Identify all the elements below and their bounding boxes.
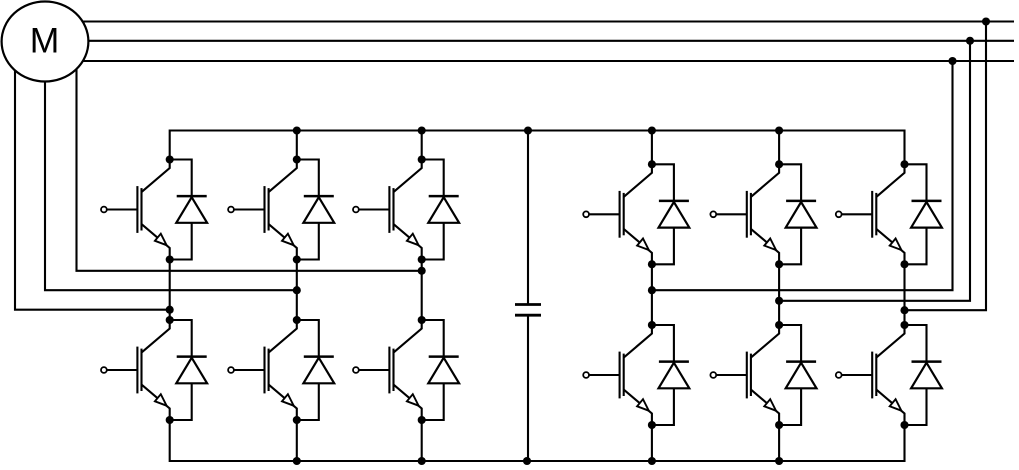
junction bottom rail capacitor node	[523, 457, 531, 465]
wire motor phase b to grid line 2	[70, 40, 1014, 42]
junction Q12 collector node	[900, 321, 908, 329]
wire bottom rail stub leg x=651.9	[651, 425, 653, 461]
junction bottom rail node 2	[418, 457, 426, 465]
transistor Q1	[101, 160, 170, 260]
junction Q8 collector node	[648, 321, 656, 329]
junction left leg 1 phase node	[166, 306, 174, 314]
junction Q4 collector node	[293, 316, 301, 324]
transistor Q12	[836, 325, 905, 425]
junction bottom rail node 4	[775, 457, 783, 465]
transistor Q11	[836, 164, 905, 264]
junction Q2 collector node	[166, 316, 174, 324]
diode D4	[297, 320, 334, 420]
wire capacitor bottom lead	[527, 315, 529, 461]
wire motor lead 1 to left leg 1 phase node	[15, 68, 170, 310]
wire motor lead 3 to left leg 3 phase node	[77, 66, 422, 271]
junction Q9 emitter node	[775, 260, 783, 268]
wire top rail stub leg x=779.1	[778, 131, 780, 165]
junction Q3 collector node	[293, 155, 301, 163]
motor M	[2, 2, 89, 82]
transistor Q4	[228, 320, 297, 420]
diode D3	[297, 160, 334, 260]
wire bottom rail stub leg x=779.1	[778, 425, 780, 461]
wire positive DC rail	[170, 131, 905, 165]
wire top rail stub leg x=421.7	[421, 131, 423, 160]
junction Q6 emitter node	[418, 416, 426, 424]
wire left leg 1 phase vertical	[169, 260, 171, 321]
junction Q10 emitter node	[775, 421, 783, 429]
wire capacitor top lead	[527, 131, 529, 305]
wire left leg 2 phase vertical	[296, 260, 298, 321]
junction top rail node 2	[418, 126, 426, 134]
transistor Q6	[353, 320, 422, 420]
wire grid vertical 1 to right leg 1 phase node	[652, 61, 953, 290]
junction top rail node 1	[293, 126, 301, 134]
wire bottom rail stub leg x=421.7	[421, 420, 423, 461]
wire motor phase a to grid line 1	[60, 20, 1014, 22]
wire bottom rail stub leg x=296.8	[296, 420, 298, 461]
junction Q5 collector node	[418, 155, 426, 163]
diode D7	[652, 164, 689, 264]
capacitor C1	[515, 305, 541, 316]
diode D11	[905, 164, 942, 264]
junction Q11 collector node	[900, 160, 908, 168]
transistor Q9	[710, 164, 779, 264]
wire top rail stub leg x=296.8	[296, 131, 298, 160]
junction Q2 emitter node	[166, 416, 174, 424]
diode D8	[652, 325, 689, 425]
transistor Q8	[583, 325, 652, 425]
svg-text:M: M	[30, 21, 60, 61]
junction Q3 emitter node	[293, 255, 301, 263]
wire top rail stub leg x=651.9	[651, 131, 653, 165]
transistor Q3	[228, 160, 297, 260]
diode D12	[905, 325, 942, 425]
junction left leg 3 phase node	[418, 267, 426, 275]
junction Q10 collector node	[775, 321, 783, 329]
junction Q9 collector node	[775, 160, 783, 168]
junction Q8 emitter node	[648, 421, 656, 429]
wire motor lead 2 to left leg 2 phase node	[45, 78, 297, 290]
transistor Q7	[583, 164, 652, 264]
junction bottom rail node 1	[293, 457, 301, 465]
junction grid line 3 tap	[948, 57, 956, 65]
wire right leg 2 phase vertical	[778, 264, 780, 325]
transistor Q10	[710, 325, 779, 425]
junction Q7 collector node	[648, 160, 656, 168]
diode D2	[170, 320, 207, 420]
junction top rail node 3	[648, 126, 656, 134]
junction top rail node 4	[775, 126, 783, 134]
wire left leg 3 phase vertical	[421, 260, 423, 321]
junction grid line 2 tap	[966, 37, 974, 45]
junction top rail capacitor node	[524, 126, 532, 134]
junction Q1 collector node	[166, 155, 174, 163]
diode D10	[779, 325, 816, 425]
transistor Q5	[353, 160, 422, 260]
junction left leg 2 phase node	[293, 286, 301, 294]
junction Q7 emitter node	[648, 260, 656, 268]
wire grid vertical 3 to right leg 3 phase node	[905, 22, 987, 311]
junction bottom rail node 3	[648, 457, 656, 465]
junction right leg 2 phase node	[775, 297, 783, 305]
junction right leg 1 phase node	[648, 286, 656, 294]
transistor Q2	[101, 320, 170, 420]
diode D6	[422, 320, 459, 420]
wire right leg 3 phase vertical	[903, 264, 905, 325]
wire motor phase c to grid line 3	[60, 60, 1014, 62]
junction Q11 emitter node	[900, 260, 908, 268]
wire right leg 1 phase vertical	[651, 264, 653, 325]
junction grid line 1 tap	[982, 17, 990, 25]
junction Q12 emitter node	[900, 421, 908, 429]
junction Q4 emitter node	[293, 416, 301, 424]
wire grid vertical 2 to right leg 2 phase node	[779, 41, 970, 301]
diode D5	[422, 160, 459, 260]
diode D1	[170, 160, 207, 260]
junction Q1 emitter node	[166, 255, 174, 263]
junction right leg 3 phase node	[900, 306, 908, 314]
diode D9	[779, 164, 816, 264]
wire negative DC rail	[170, 420, 905, 461]
junction Q5 emitter node	[418, 255, 426, 263]
junction Q6 collector node	[418, 316, 426, 324]
